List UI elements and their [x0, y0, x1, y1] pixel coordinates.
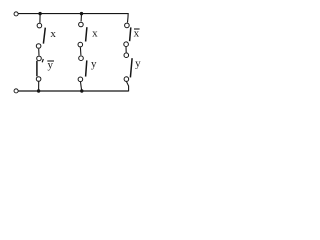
contact x (branch2 upper) terminal circles — [79, 22, 84, 27]
wire branch1 drop to J3 — [38, 81, 40, 91]
wire top rail — [19, 13, 129, 15]
wire branch1 drop from J1 — [39, 14, 41, 23]
background — [0, 0, 152, 101]
svg-text:x: x — [50, 28, 56, 40]
contact y-bar (branch1 lower) terminal circles — [37, 56, 42, 61]
node J1 (top rail to branch 1) — [38, 12, 41, 15]
contact x (branch1 upper) terminal circles — [37, 23, 42, 28]
wire branch2 between contacts — [79, 47, 82, 55]
wire bottom rail — [18, 90, 128, 92]
wire branch3 between contacts — [125, 47, 127, 53]
contact x-bar (branch3 upper) terminal circles — [125, 23, 130, 28]
wire branch2 drop to J4 — [81, 82, 82, 91]
wire branch3 rise to bottom rail corner — [127, 82, 129, 92]
terminal T1 (top left) — [14, 12, 18, 16]
wire branch2 drop from J2 — [80, 14, 82, 22]
node J4 (bottom rail to branch 2) — [80, 89, 83, 92]
contact y (branch2) blade — [86, 60, 87, 76]
svg-text:y: y — [135, 57, 141, 69]
contact y (branch3 lower) terminal circles — [124, 53, 129, 58]
contact y (branch3) blade — [130, 58, 132, 77]
svg-text:x: x — [92, 28, 98, 40]
wire branch3 corner drop from top rail — [127, 13, 130, 23]
contact x (branch2) blade — [86, 27, 87, 41]
svg-text:y: y — [91, 58, 97, 70]
node J3 (bottom rail to branch 1) — [37, 89, 40, 92]
wire branch1 between contacts — [38, 49, 40, 56]
contact y (branch2 lower) terminal circles — [79, 56, 84, 61]
contact x (branch1) blade — [43, 28, 45, 44]
node J2 (top rail to branch 2) — [80, 12, 83, 15]
terminal T2 (bottom left) — [14, 89, 18, 93]
contact y-bar blade (closed, passes on left) — [42, 59, 43, 62]
contact x-bar (branch3) blade — [130, 27, 131, 41]
